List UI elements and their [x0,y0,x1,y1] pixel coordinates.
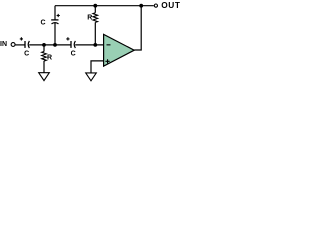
svg-text:R: R [47,55,52,62]
svg-text:C: C [71,50,76,57]
svg-text:C: C [40,20,45,27]
svg-text:C: C [24,50,29,57]
svg-text:R: R [87,15,92,22]
svg-text:IN: IN [0,41,7,48]
svg-text:OUT: OUT [161,0,180,10]
